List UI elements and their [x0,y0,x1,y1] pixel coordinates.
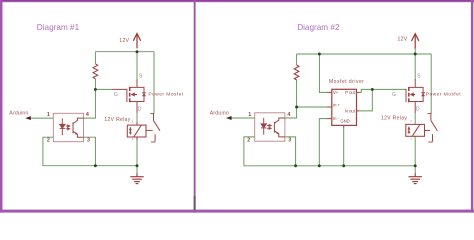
wire P out to gate [359,89,405,92]
node pin3 ground junction [94,164,97,167]
transistor Q2 power mosfet [405,79,424,113]
optocoupler U2 LED [261,118,266,135]
mosfet arrow on middle stub [410,92,414,96]
svg-text:S: S [417,73,421,79]
svg-text:1: 1 [248,112,251,118]
optocoupler U1 phototransistor [73,118,84,137]
frame divider between panels [194,0,196,213]
relay pin numbers [410,119,412,140]
optocoupler pin numbers [47,112,90,144]
wire IN- to ground [319,119,326,166]
svg-text:12V Relay: 12V Relay [104,117,130,123]
node 12V rail junction [414,53,417,56]
node IN- ground junction [318,164,321,167]
wire supply stem lower part [414,49,416,54]
svg-text:Diagram #1: Diagram #1 [37,23,80,32]
wire resistor bottom to IN+ node [296,80,298,107]
frame top border [0,0,474,2]
svg-text:In +: In + [333,102,341,107]
mosfet arrow on middle stub [131,92,135,96]
svg-text:P out: P out [345,90,356,95]
frame left border [0,0,3,213]
wire mosfet source to relay [136,113,138,122]
wire relay bottom to ground node [414,136,416,173]
wire opto pin2 to bottom [244,137,415,166]
wire arduino to opto pin1 [30,117,53,119]
source pin [136,102,138,114]
wire rail left drop to resistor [94,52,96,64]
wire right rail to switch [153,52,155,111]
svg-text:4: 4 [86,112,89,118]
svg-text:N out: N out [345,108,356,113]
optocoupler U1 light arrows [66,125,70,130]
wire mosfet source to relay [414,113,416,124]
middle stub [135,94,137,96]
svg-text:S: S [139,73,143,79]
frame bottom border [0,210,474,213]
svg-text:D: D [138,107,142,113]
svg-text:Power Mosfet: Power Mosfet [148,92,183,98]
supply 12V arrow [133,34,140,49]
wire driver GND to ground [343,128,345,166]
optocoupler U2 light arrows [267,124,271,129]
frame right border [471,0,474,213]
svg-text:12V: 12V [119,38,129,44]
wire IN+ node to driver [297,106,327,108]
svg-text:Power Mosfet: Power Mosfet [426,92,461,98]
resistor R2 [294,65,299,80]
svg-text:12V Relay: 12V Relay [381,115,407,121]
wire rail left drop to resistor [296,54,298,65]
optocoupler U1 box [53,113,83,141]
svg-text:2: 2 [47,138,50,144]
node pin3 ground junction [294,164,297,167]
wire opto pin2 to bottom [43,137,137,166]
relay contact switch [146,111,160,142]
relay pin numbers [132,120,134,141]
relay K1 coil [127,122,146,140]
drain pin [136,79,138,87]
mosfet pin names [392,73,421,112]
svg-text:D: D [416,107,420,113]
ground GND2 [409,173,422,183]
node IN+ junction [295,106,298,109]
wire opto pin3 down [285,137,296,166]
wire drain from rail [414,54,416,80]
node V+ rail junction [318,53,321,56]
supply 12V arrow [412,34,419,49]
channel dashes [129,87,131,91]
mosfet body diode [421,93,425,96]
driver pin stubs [327,92,359,128]
wire 12V top rail [297,53,432,55]
svg-text:V+: V+ [333,90,339,95]
svg-text:G: G [114,92,118,98]
svg-text:G: G [392,92,396,98]
node relay ground junction [136,164,139,167]
ground GND1 [130,173,143,183]
arduino arrowhead [25,116,31,120]
svg-text:GND: GND [340,118,349,123]
optocoupler pin numbers [247,112,291,144]
svg-text:12V: 12V [398,36,408,42]
body loop with diode branch [130,87,144,101]
wire V+ drop from rail [319,54,326,92]
relay contact switch [425,111,438,142]
gate lead and gate bar [112,89,127,102]
node gate junction [94,88,97,91]
mosfet body diode [142,93,146,96]
driver pin names [333,90,356,123]
resistor R1 [93,64,98,79]
IC U3 mosfet driver box [332,89,357,125]
relay K2 coil [406,124,425,136]
mosfet pin names [114,73,143,112]
transistor Q1 power mosfet [112,79,144,113]
wire 12V top rail [95,51,154,53]
wire gate node to mosfet gate [95,88,112,90]
optocoupler U2 box [255,113,285,141]
svg-text:2: 2 [247,137,250,143]
wire N out loop [359,89,372,111]
arduino arrowhead [226,116,232,120]
svg-text:4: 4 [287,112,290,118]
svg-text:Diagram #2: Diagram #2 [297,23,340,32]
wire relay bottom to ground node [136,137,138,174]
wire arduino to opto pin1 [231,117,254,119]
node gate junction [371,88,374,91]
svg-text:3: 3 [87,137,90,143]
wire IN+ node down to opto pin4 [285,107,297,118]
svg-text:Arduino: Arduino [210,111,229,117]
svg-text:3: 3 [288,138,291,144]
wire drain from rail [136,52,138,80]
node driver GND junction [342,164,345,167]
svg-text:Mosfet driver: Mosfet driver [329,79,364,85]
svg-text:Arduino: Arduino [9,110,28,116]
wire resistor bottom to gate node [94,79,96,90]
wire opto pin3 down [84,137,96,166]
svg-text:In -: In - [333,116,340,121]
wire right rail to switch [430,54,432,111]
wire gate node down to opto pin4 [84,89,96,118]
optocoupler U1 LED [60,118,65,135]
node relay ground junction [414,164,417,167]
optocoupler U2 phototransistor [274,118,285,137]
svg-text:1: 1 [47,112,50,118]
node 12V rail junction [136,50,139,53]
